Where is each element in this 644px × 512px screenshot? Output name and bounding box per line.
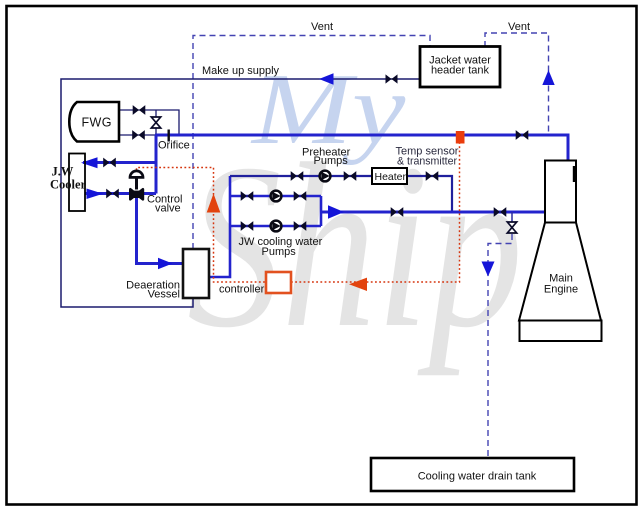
svg-text:Vent: Vent <box>311 21 333 33</box>
arrow: pump discharge (right) <box>328 205 344 218</box>
pipe: bottom pump line <box>230 225 321 228</box>
svg-text:Vent: Vent <box>508 21 530 33</box>
svg-text:Cooler: Cooler <box>50 178 87 192</box>
engine port mark <box>573 166 576 182</box>
red dotted: control valve to controller <box>137 168 267 283</box>
arrow: cooler inlet (left) <box>81 157 98 168</box>
svg-text:Ship: Ship <box>187 115 523 377</box>
valve pump2 discharge <box>294 221 307 231</box>
wire: FWG bottom outlet line <box>119 134 157 136</box>
arrow: drain line (down) <box>482 262 495 277</box>
pump preheater <box>320 171 331 182</box>
svg-text:Pumps: Pumps <box>314 155 349 167</box>
watermark Ship <box>187 115 523 377</box>
controller box <box>266 272 291 293</box>
pipe: vertical feed at x156 <box>155 135 158 194</box>
deaeration vessel box <box>183 249 209 298</box>
valve drain branch vertical <box>507 222 516 233</box>
arrow: red control signal (up) <box>207 194 221 213</box>
svg-text:Make up supply: Make up supply <box>202 65 280 77</box>
pipe: main top pipe to engine <box>155 135 568 161</box>
wire: FWG top bypass line <box>119 110 179 135</box>
valve FWG top <box>133 105 146 115</box>
valve preheater discharge <box>344 171 357 181</box>
pipe: pump discharge manifold <box>320 196 323 226</box>
svg-text:& transmitter: & transmitter <box>397 156 458 168</box>
valve after heater <box>426 171 439 181</box>
valve preheater suction <box>291 171 304 181</box>
arrow: vessel inlet (right) <box>158 258 173 269</box>
valve main lower pipe right <box>494 207 507 217</box>
valve cooler outlet <box>106 189 119 199</box>
pipe: JW cooler outlet / control valve line <box>85 192 156 195</box>
red dotted: controller to temp sensor <box>291 144 460 283</box>
svg-text:controller: controller <box>219 284 265 296</box>
svg-text:Vessel: Vessel <box>148 289 180 301</box>
pipe: main lower pipe to engine <box>321 211 544 214</box>
orifice tick <box>167 130 169 142</box>
valve FWG bypass vertical <box>151 117 160 128</box>
pump JW2 <box>271 221 282 232</box>
pipe: middle pump line <box>230 195 321 198</box>
valve on make up line <box>386 74 398 83</box>
jacket water header tank box <box>420 47 500 88</box>
arrow: red sensor signal (left) <box>349 278 367 291</box>
arrow: cooler outlet (right) <box>87 189 104 200</box>
svg-text:valve: valve <box>155 203 181 215</box>
valve pump2 suction <box>241 221 254 231</box>
svg-text:header tank: header tank <box>431 65 490 77</box>
temp sensor red square <box>456 131 465 144</box>
control valve body <box>130 171 143 199</box>
svg-text:Heater: Heater <box>375 171 407 183</box>
wire: make up supply line <box>61 79 420 307</box>
pipe: JW cooler inlet line <box>83 161 156 164</box>
pipe: preheater line <box>230 176 452 212</box>
arrow: right vent (up) <box>542 70 554 85</box>
svg-text:Engine: Engine <box>544 284 578 296</box>
JW cooler box <box>69 154 85 212</box>
wire: FWG vertical valve branch <box>155 110 157 135</box>
wire: left vent dashed (deaeration vessel to header tank) <box>193 36 430 250</box>
pipe: vessel suction to pump manifold <box>209 176 230 277</box>
watermark My <box>250 54 406 166</box>
pipe: control valve drop to deaeration vessel <box>137 197 184 264</box>
wire: right vent dashed (header tank to main pipe) <box>485 33 549 134</box>
valve FWG bottom <box>132 130 145 140</box>
pump JW1 <box>271 191 282 202</box>
valve pump1 discharge <box>294 191 307 201</box>
svg-text:Pumps: Pumps <box>262 246 297 258</box>
arrow: make up supply flow (left) <box>319 73 334 84</box>
svg-text:Cooling water drain tank: Cooling water drain tank <box>418 471 537 483</box>
main engine <box>519 161 602 342</box>
svg-text:FWG: FWG <box>82 116 112 130</box>
cooling water drain tank box <box>371 458 574 491</box>
FWG generator <box>69 102 119 142</box>
pipe: drain branch stub <box>511 212 513 222</box>
valve cooler inlet <box>103 158 116 168</box>
heater box <box>372 168 407 184</box>
valve main top pipe <box>516 130 529 140</box>
wire: drain dashed line to cooling water drain tank <box>488 234 512 458</box>
svg-text:J.W: J.W <box>52 165 74 179</box>
valve main lower pipe left <box>391 207 404 217</box>
valve pump1 suction <box>241 191 254 201</box>
svg-text:Orifice: Orifice <box>158 140 190 152</box>
